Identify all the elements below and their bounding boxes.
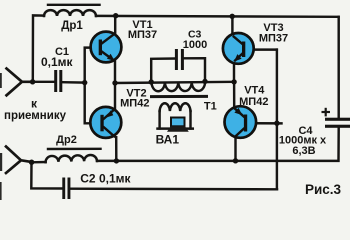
lower-left drop to bottom rail [31,162,62,189]
wire C1 right [63,81,85,84]
input terminal lower [6,147,32,174]
right rail drop to C4 [337,17,339,119]
main coupling wire (emitters VT1/VT2 to tank) [115,82,234,83]
capacitor C1 plates [54,70,62,92]
VT4 collector lead [236,128,245,161]
C3 loop right side [184,58,205,81]
svg-text:МП37: МП37 [259,33,288,45]
VT4 emitter lead [234,82,244,117]
speaker BA1 [167,118,189,132]
base bus vertical VT3/VT4 to bottom rail [276,50,278,190]
base bus VT1/VT2 [85,48,100,124]
svg-text:1000: 1000 [183,39,207,51]
capacitor C4 plates [325,118,350,128]
transistor VT3 [223,33,254,64]
T1 secondary winding arcs [160,103,191,111]
transistor VT2 [90,107,121,138]
VT1 collector lead [102,16,116,44]
svg-text:Т1: Т1 [204,101,217,113]
T1 primary winding arcs [152,82,206,92]
VT4 base lead [247,122,282,125]
svg-text:VT4: VT4 [244,84,265,96]
VT3 collector lead [232,16,242,44]
transistor VT4 [225,106,257,138]
VT2 emitter lead [103,83,115,120]
svg-text:С2 0,1мк: С2 0,1мк [80,172,131,186]
transistor VT1 [91,32,122,63]
VT3 emitter lead [234,53,243,82]
junction node dots [29,13,280,165]
svg-text:МП42: МП42 [120,98,149,110]
C3 loop left side [151,59,175,83]
svg-text:0,1мк: 0,1мк [41,55,74,69]
top rail wire right segment [96,15,339,18]
bottom rail right of C2 [70,187,277,190]
VT3 base lead to bus [244,48,277,50]
T1 secondary left lead [158,111,160,129]
scan edge artifact left bottom [0,182,2,200]
capacitor C2 plates [62,178,70,200]
scan edge artifact left top [0,73,2,88]
inductor Dr1 core line [48,4,100,6]
svg-text:Рис.3: Рис.3 [305,182,342,197]
svg-text:Др2: Др2 [56,134,77,146]
C4 plus sign [322,108,331,117]
svg-text:приемнику: приемнику [4,110,67,122]
inductor Dr1 coil [44,10,96,16]
VT1 emitter lead [102,51,116,83]
inductor Dr2 core line [48,148,101,151]
top rail wire left segment [33,15,44,81]
capacitor C3 plates [175,49,184,70]
input terminal upper [7,69,33,96]
svg-text:6,3В: 6,3В [292,145,315,157]
T1 core line [152,95,207,98]
svg-text:ВА1: ВА1 [156,133,180,147]
VT2 collector lead [103,127,116,161]
speaker bottom wire [158,127,193,129]
svg-text:к: к [31,97,38,111]
T1 secondary right lead [189,111,191,129]
inductor Dr2 coil [46,155,97,162]
wire C1 left [33,81,55,83]
svg-text:МП37: МП37 [128,29,157,41]
svg-text:Др1: Др1 [61,20,83,32]
lower wire to C4 [97,128,339,161]
lower wire left segment [32,161,46,164]
svg-text:МП42: МП42 [239,96,268,108]
scan edge artifact left middle [0,153,2,171]
